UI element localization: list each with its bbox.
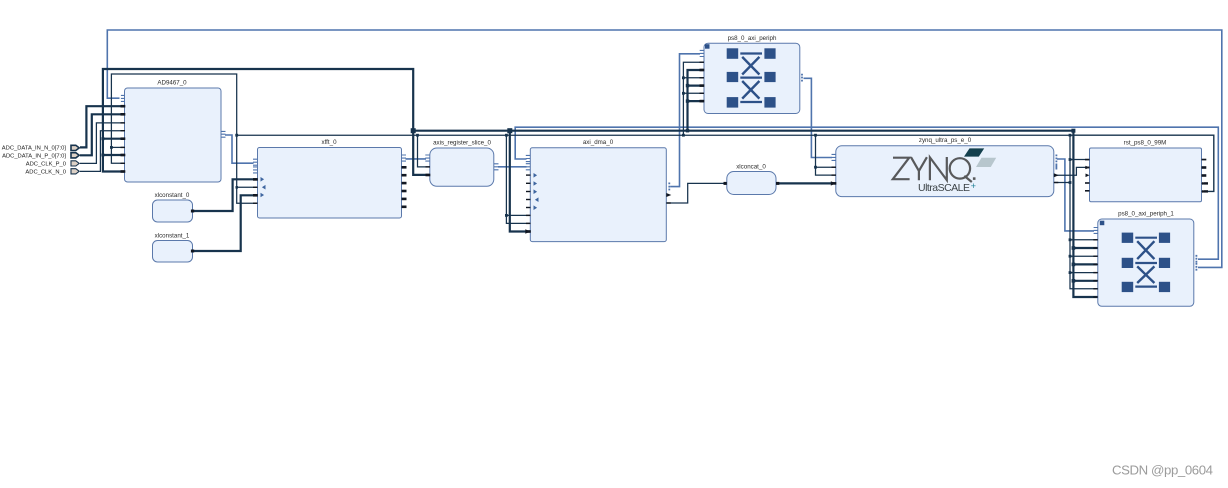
svg-text:rst_ps8_0_99M: rst_ps8_0_99M — [1124, 140, 1167, 147]
svg-text:xlconstant_1: xlconstant_1 — [155, 233, 190, 240]
svg-text:ADC_DATA_IN_P_0[7:0]: ADC_DATA_IN_P_0[7:0] — [2, 154, 66, 160]
svg-text:axi_dma_0: axi_dma_0 — [583, 139, 614, 146]
svg-text:ADC_CLK_N_0: ADC_CLK_N_0 — [25, 170, 66, 176]
svg-text:ADC_CLK_P_0: ADC_CLK_P_0 — [26, 162, 66, 168]
svg-text:ps8_0_axi_periph: ps8_0_axi_periph — [728, 35, 777, 42]
svg-text:zynq_ultra_ps_e_0: zynq_ultra_ps_e_0 — [919, 137, 972, 144]
svg-text:ADC_DATA_IN_N_0[7:0]: ADC_DATA_IN_N_0[7:0] — [2, 146, 67, 152]
svg-text:ps8_0_axi_periph_1: ps8_0_axi_periph_1 — [1118, 211, 1174, 218]
svg-text:UltraSCALE: UltraSCALE — [918, 182, 970, 194]
svg-text:CSDN @pp_0604: CSDN @pp_0604 — [1112, 463, 1213, 478]
svg-text:AD9467_0: AD9467_0 — [157, 80, 187, 87]
svg-text:xlconcat_0: xlconcat_0 — [736, 164, 766, 171]
svg-text:xfft_0: xfft_0 — [321, 139, 337, 146]
svg-text:xlconstant_0: xlconstant_0 — [155, 192, 190, 199]
svg-text:axis_register_slice_0: axis_register_slice_0 — [433, 140, 491, 147]
svg-text:+: + — [971, 181, 976, 191]
